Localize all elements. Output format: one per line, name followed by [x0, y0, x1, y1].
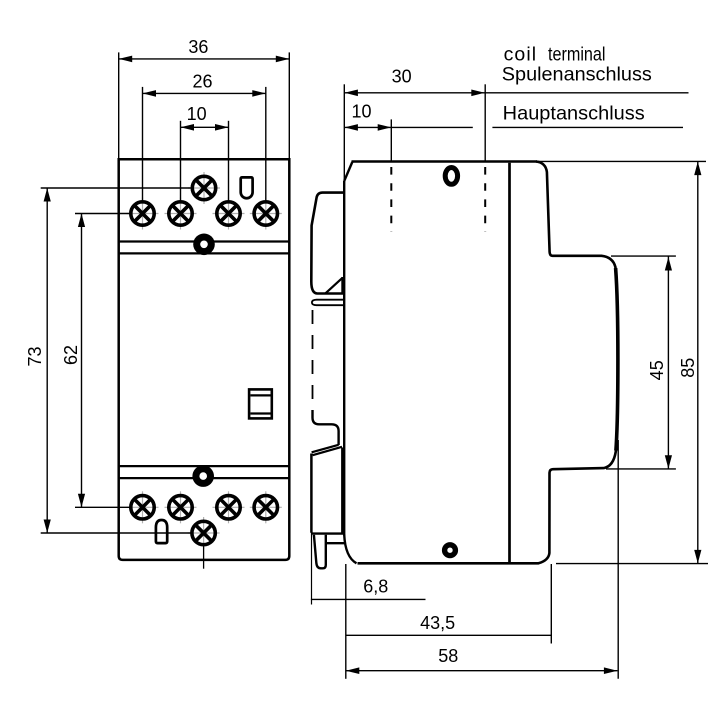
terminal B1: [127, 491, 159, 523]
terminal B3: [213, 491, 245, 523]
clip wedge diagonal: [326, 278, 343, 294]
clip wedge lower diag 2: [313, 447, 342, 455]
svg-text:10: 10: [187, 104, 207, 124]
donut top: [193, 234, 215, 256]
top-left chamfer: [344, 162, 352, 181]
svg-text:58: 58: [438, 646, 458, 666]
front bulge emphasis: [616, 268, 618, 451]
bottom slot: [156, 520, 167, 543]
donut bottom: [192, 465, 214, 487]
svg-text:terminal: terminal: [548, 43, 606, 65]
ext 43,5 / 58 left: [345, 564, 347, 679]
top edge extension (85 dim): [537, 160, 706, 162]
svg-text:30: 30: [392, 67, 412, 87]
dim 36 line: [119, 58, 290, 60]
clip upper outline: [311, 193, 344, 294]
foot top line: [311, 532, 343, 534]
ext 58 right: [617, 440, 619, 679]
svg-text:Spulenanschluss: Spulenanschluss: [502, 64, 652, 86]
marker window: [249, 389, 272, 418]
ext 6,8 left: [311, 529, 313, 605]
ext 45 top: [611, 255, 676, 257]
bottom-left chamfer: [344, 535, 356, 564]
dim 45 line: [667, 257, 669, 469]
internal front edge: [508, 163, 511, 562]
terminal B2: [165, 491, 197, 523]
top slot: [241, 177, 253, 198]
top edge: [352, 160, 538, 162]
ext left (body edge): [343, 84, 345, 193]
right profile: [358, 162, 618, 564]
dashed hole line 2: [484, 167, 486, 232]
bottom ring mark: [445, 545, 456, 556]
coil terminal bottom: [188, 517, 220, 549]
svg-text:85: 85: [678, 358, 698, 378]
Hauptanschluss underline: [492, 126, 683, 128]
clip lower right vertical: [341, 448, 343, 533]
svg-text:36: 36: [188, 37, 208, 57]
clip wedge vertical: [341, 277, 343, 294]
ext 45 bottom: [606, 468, 676, 470]
coil terminal top: [188, 172, 220, 204]
svg-text:26: 26: [192, 72, 212, 92]
ext 36 right: [288, 52, 290, 158]
clip dashed centerline: [312, 310, 314, 411]
dim 73 line: [46, 188, 48, 533]
dim 6,8 line: [311, 598, 426, 600]
terminal B4: [250, 491, 282, 523]
dim 43,5 line: [346, 634, 552, 636]
terminal T2: [165, 198, 197, 230]
clip hairpin: [312, 300, 343, 306]
dim 58 line: [346, 670, 618, 672]
ext 85 bottom: [556, 563, 708, 565]
dim 30 line + Spulenanschluss underline: [344, 92, 688, 94]
svg-text:10: 10: [351, 101, 371, 121]
ext 73 top: [41, 187, 191, 189]
ext 10 right solid: [390, 119, 392, 162]
svg-text:coil: coil: [504, 43, 536, 65]
body outline: [119, 159, 290, 560]
dim 10 line: [344, 126, 472, 128]
svg-text:Hauptanschluss: Hauptanschluss: [503, 103, 645, 125]
svg-text:45: 45: [647, 360, 667, 380]
svg-text:43,5: 43,5: [420, 613, 455, 633]
clip lower left vertical: [310, 454, 313, 533]
ext 36 left: [118, 52, 120, 158]
dim 85 line: [697, 162, 699, 564]
top O mark: [445, 168, 457, 185]
ext 10 left: [180, 121, 182, 201]
ext 43,5 right: [550, 564, 552, 644]
left edge: [343, 181, 345, 536]
dashed hole line 1: [390, 167, 392, 232]
foot: [314, 535, 326, 569]
ext 73 bottom: [41, 532, 191, 534]
svg-text:73: 73: [25, 346, 45, 366]
ext 26 left: [142, 87, 144, 200]
notch line: [326, 542, 344, 544]
ext 10 right: [228, 121, 230, 201]
terminal T4: [250, 198, 282, 230]
terminal T3: [213, 198, 245, 230]
dim 10 line: [181, 126, 229, 128]
inner line bottom 1: [120, 465, 289, 467]
ext 62 bottom: [75, 506, 129, 508]
inner line bottom 2: [120, 477, 289, 479]
inner line top 2: [120, 252, 289, 254]
svg-text:6,8: 6,8: [363, 577, 388, 597]
svg-text:62: 62: [61, 345, 81, 365]
ext 26 right: [265, 87, 267, 200]
clip wedge lower diag 1: [312, 445, 339, 453]
dim 62 line: [81, 214, 83, 508]
dim 26 line: [143, 92, 266, 94]
inner line top 1: [120, 240, 289, 242]
clip hook: [313, 410, 339, 445]
ext 62 top: [75, 213, 129, 215]
centerline below bottom coil terminal: [203, 547, 205, 569]
ext 30 right solid: [484, 84, 486, 162]
terminal T1: [127, 198, 159, 230]
